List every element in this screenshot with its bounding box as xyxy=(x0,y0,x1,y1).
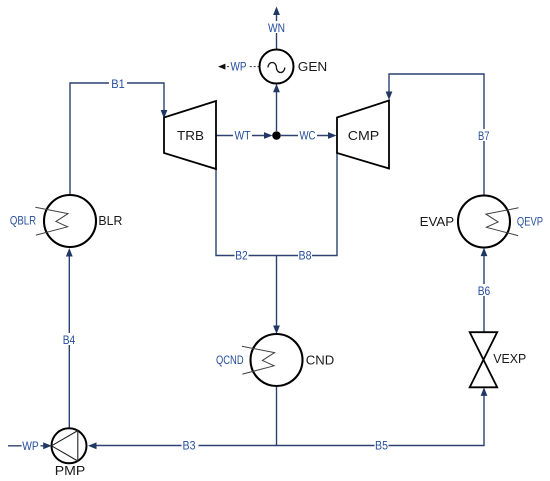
svg-text:B6: B6 xyxy=(478,284,491,298)
svg-text:WT: WT xyxy=(235,129,252,143)
svg-text:EVAP: EVAP xyxy=(420,214,455,229)
svg-text:QCND: QCND xyxy=(216,353,244,367)
svg-text:B2: B2 xyxy=(235,249,248,263)
svg-text:TRB: TRB xyxy=(177,128,204,143)
svg-text:BLR: BLR xyxy=(98,213,122,228)
svg-text:WP: WP xyxy=(231,60,247,74)
svg-text:B7: B7 xyxy=(478,129,490,143)
svg-text:CMP: CMP xyxy=(348,128,380,143)
svg-text:B5: B5 xyxy=(375,439,388,453)
svg-text:B3: B3 xyxy=(183,439,196,453)
svg-text:B1: B1 xyxy=(111,77,125,91)
svg-text:QBLR: QBLR xyxy=(10,214,36,228)
svg-text:B8: B8 xyxy=(299,249,312,263)
svg-text:B4: B4 xyxy=(63,333,76,347)
svg-text:WC: WC xyxy=(300,129,316,143)
svg-text:PMP: PMP xyxy=(55,463,86,478)
svg-text:GEN: GEN xyxy=(298,59,328,74)
svg-text:VEXP: VEXP xyxy=(493,351,526,366)
svg-text:QEVP: QEVP xyxy=(517,215,543,229)
svg-text:WN: WN xyxy=(268,21,285,35)
svg-text:CND: CND xyxy=(306,353,335,368)
svg-text:WP: WP xyxy=(22,439,39,453)
